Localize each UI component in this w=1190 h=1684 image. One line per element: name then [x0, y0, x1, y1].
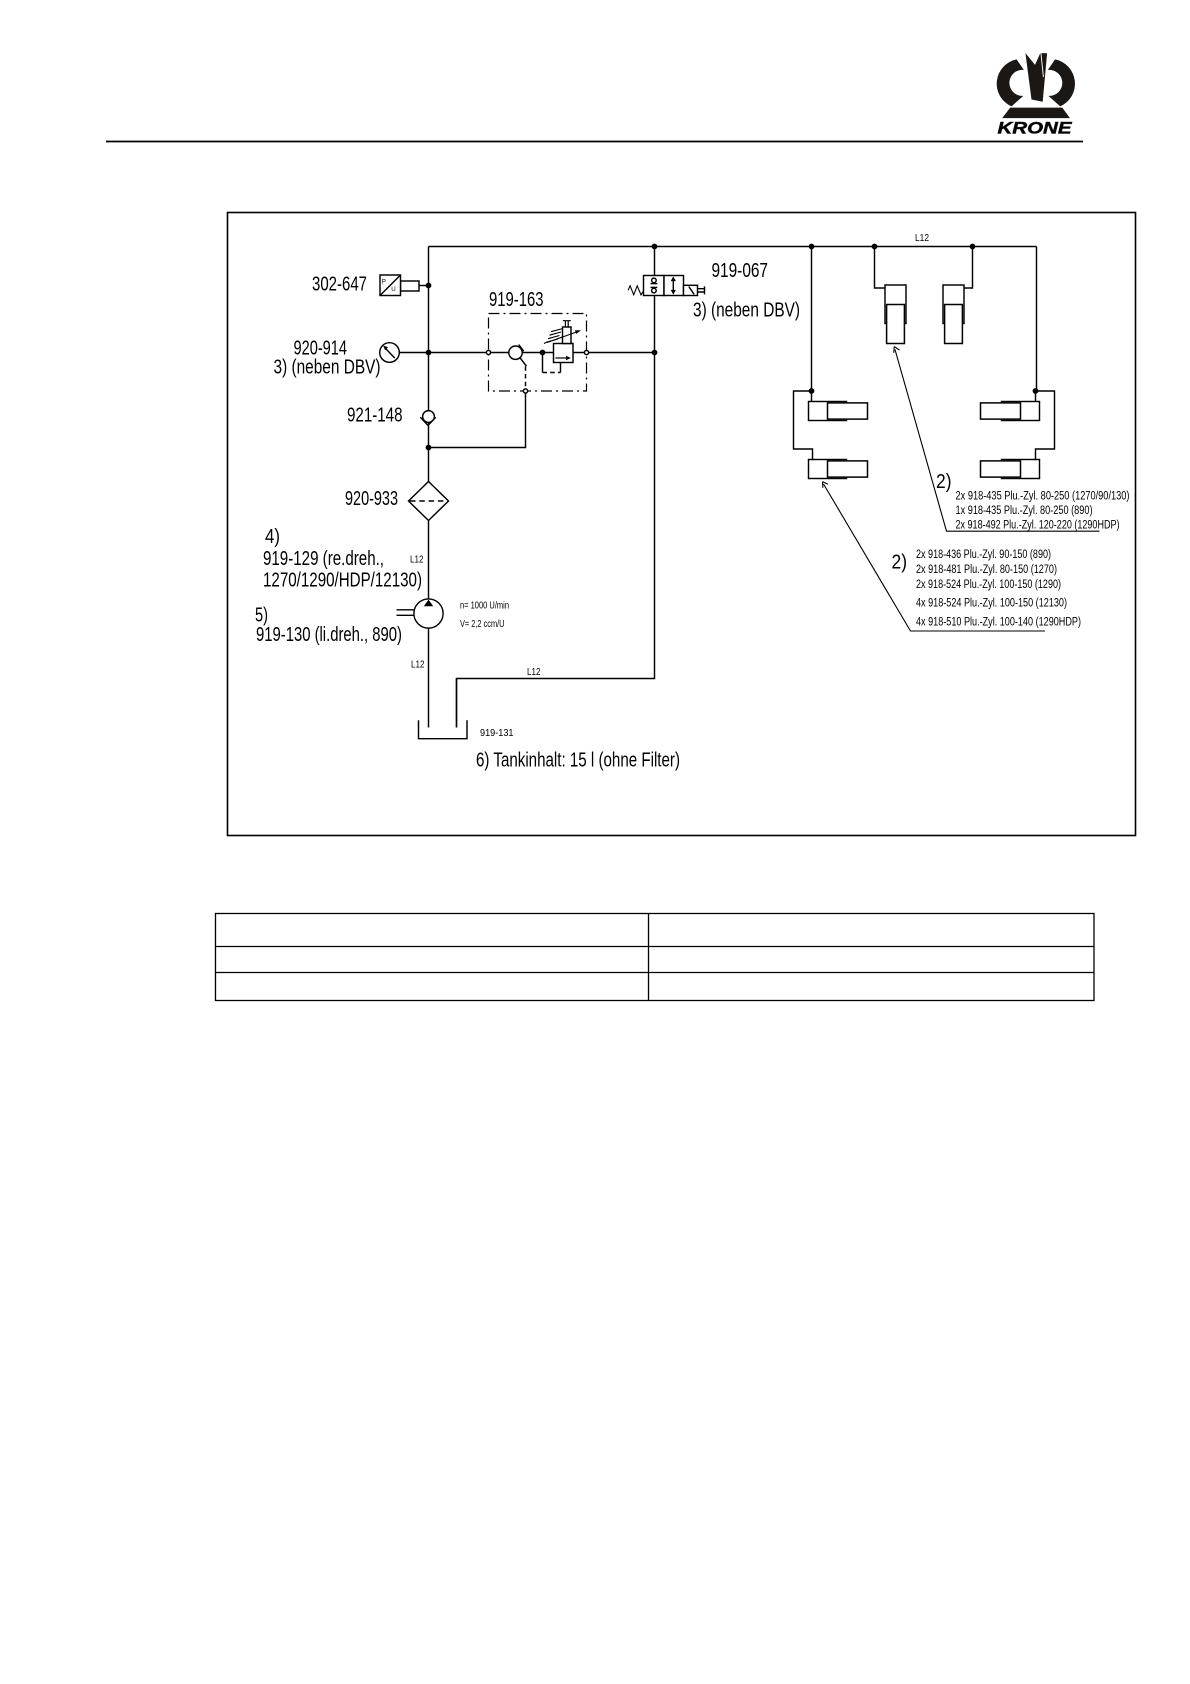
svg-text:KRONE: KRONE — [998, 120, 1073, 138]
svg-text:919-129 (re.dreh.,: 919-129 (re.dreh., — [263, 547, 384, 570]
svg-text:n= 1000 U/min: n= 1000 U/min — [460, 600, 509, 612]
svg-text:302-647: 302-647 — [312, 273, 367, 296]
svg-text:1x 918-435 Plu.-Zyl. 80-250 (: 1x 918-435 Plu.-Zyl. 80-250 (890) — [956, 505, 1093, 517]
svg-text:L12: L12 — [527, 666, 541, 678]
svg-text:2x 918-436 Plu.-Zyl. 90-150 (8: 2x 918-436 Plu.-Zyl. 90-150 (890) — [916, 549, 1051, 561]
svg-text:919-131: 919-131 — [480, 727, 514, 739]
svg-text:U: U — [391, 286, 395, 293]
svg-text:L12: L12 — [411, 659, 425, 671]
svg-text:921-148: 921-148 — [347, 404, 403, 427]
svg-text:L12: L12 — [915, 232, 929, 244]
svg-text:L12: L12 — [410, 554, 424, 566]
svg-text:919-130 (li.dreh., 890): 919-130 (li.dreh., 890) — [256, 623, 402, 646]
svg-text:919-067: 919-067 — [712, 259, 769, 282]
svg-text:2): 2) — [936, 471, 952, 493]
svg-text:4x 918-524 Plu.-Zyl. 100-150 (: 4x 918-524 Plu.-Zyl. 100-150 (12130) — [916, 598, 1067, 610]
svg-text:4x 918-510 Plu.-Zyl. 100-140 (: 4x 918-510 Plu.-Zyl. 100-140 (1290HDP) — [916, 617, 1081, 629]
svg-text:920-933: 920-933 — [345, 487, 398, 510]
svg-text:4): 4) — [265, 525, 280, 548]
svg-text:2x 918-481 Plu.-Zyl. 80-150 (1: 2x 918-481 Plu.-Zyl. 80-150 (1270) — [916, 564, 1057, 576]
svg-text:3) (neben DBV): 3) (neben DBV) — [274, 356, 381, 379]
svg-text:P: P — [382, 279, 386, 286]
svg-text:2x 918-524 Plu.-Zyl. 100-150 (: 2x 918-524 Plu.-Zyl. 100-150 (1290) — [916, 579, 1061, 591]
svg-text:1270/1290/HDP/12130): 1270/1290/HDP/12130) — [263, 569, 422, 592]
svg-text:919-163: 919-163 — [489, 288, 544, 311]
svg-text:2x 918-492 Plu.-Zyl. 120-220 (: 2x 918-492 Plu.-Zyl. 120-220 (1290HDP) — [956, 520, 1120, 532]
svg-text:2): 2) — [892, 552, 908, 574]
svg-text:2x 918-435 Plu.-Zyl. 80-250: 2x 918-435 Plu.-Zyl. 80-250 (1270/90/130… — [956, 491, 1130, 503]
svg-text:V= 2,2 ccm/U: V= 2,2 ccm/U — [460, 618, 505, 630]
svg-text:3) (neben DBV): 3) (neben DBV) — [693, 299, 800, 322]
svg-text:6) Tankinhalt: 15 l (ohne Filt: 6) Tankinhalt: 15 l (ohne Filter) — [476, 749, 680, 772]
